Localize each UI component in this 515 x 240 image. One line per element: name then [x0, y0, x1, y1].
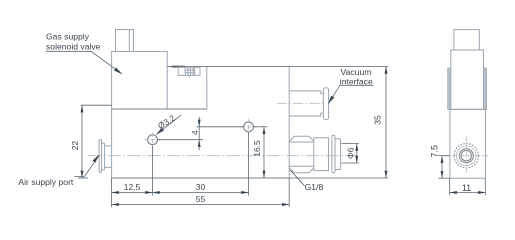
svg-text:4: 4: [190, 130, 200, 135]
svg-text:Air supply port: Air supply port: [18, 177, 74, 187]
svg-text:Vacuum: Vacuum: [341, 67, 372, 77]
svg-text:22: 22: [70, 141, 80, 151]
svg-text:35: 35: [373, 115, 383, 125]
svg-text:12.5: 12.5: [124, 182, 141, 192]
svg-text:Gas supply: Gas supply: [46, 32, 90, 42]
svg-text:16.5: 16.5: [252, 140, 262, 157]
svg-text:Φ6: Φ6: [345, 147, 355, 159]
svg-text:7.5: 7.5: [429, 145, 439, 158]
svg-text:G1/8: G1/8: [305, 182, 324, 192]
svg-text:11: 11: [462, 183, 471, 193]
svg-text:30: 30: [196, 182, 206, 192]
svg-text:55: 55: [196, 194, 206, 204]
svg-text:solenoid valve: solenoid valve: [46, 41, 101, 51]
svg-text:interface: interface: [340, 76, 373, 86]
